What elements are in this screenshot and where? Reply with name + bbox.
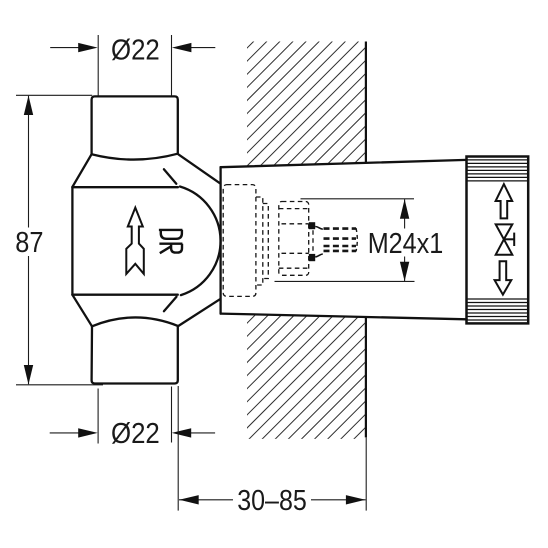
svg-text:M24x1: M24x1 [368, 228, 444, 260]
cartridge body dashed box [223, 185, 256, 297]
thread inner line top [279, 208, 309, 210]
sleeve through wall [221, 160, 467, 319]
protective cap body [467, 157, 529, 324]
spindle neck curves [315, 227, 323, 257]
shoulder slope lower-left [72, 295, 92, 327]
sleeve bottom edge [221, 314, 467, 320]
cap knurling bottom [467, 299, 529, 320]
cap symbol: open arrow up [496, 184, 513, 218]
threaded stud (dashed thread lines) [324, 229, 357, 251]
shoulder slope upper-left [72, 154, 91, 187]
spindle hidden line bottom [282, 252, 309, 254]
chamber edge segment lower [164, 297, 177, 311]
body edge line bottom [72, 294, 177, 296]
flow direction arrow [126, 208, 144, 274]
cap knurling top [467, 160, 529, 181]
spindle axis dashed [312, 230, 314, 253]
valve body outline [72, 96, 220, 383]
spindle hidden line top [282, 223, 309, 225]
hidden cartridge (dashed) [223, 185, 313, 297]
seal ring top (black) [309, 222, 315, 229]
svg-text:30–85: 30–85 [237, 485, 307, 517]
svg-text:Ø22: Ø22 [111, 35, 160, 67]
body left edge [71, 187, 73, 295]
sleeve left edge [219, 167, 221, 313]
svg-text:87: 87 [15, 227, 43, 259]
thread inner line bottom [279, 267, 309, 269]
top inlet stub [92, 96, 178, 154]
wall bottom block right edge [365, 317, 367, 438]
dimension M24x1 [275, 199, 415, 282]
dimension Ø22 bottom [50, 387, 215, 444]
sleeve top edge [221, 160, 467, 167]
cap symbol: valve glyph [496, 224, 515, 254]
bottom outlet stub fillet arc [92, 317, 178, 326]
DR marking (rotated, drawn as paths) [159, 230, 183, 253]
chamber edge segment upper [164, 169, 176, 184]
seal ring bottom (black) [309, 254, 315, 261]
svg-text:Ø22: Ø22 [111, 418, 160, 450]
body edge line top [72, 186, 177, 188]
cartridge step profile [256, 197, 263, 285]
cap symbol: open arrow down [495, 261, 512, 294]
wall top block right edge [365, 42, 367, 164]
shoulder slope upper-right [178, 154, 220, 183]
thread section dashed box [279, 202, 309, 276]
dimension 30-85 bottom [178, 386, 366, 511]
bottom outlet stub [92, 326, 178, 384]
top stub fillet arc [92, 154, 178, 160]
stud end cap dashed [356, 228, 357, 252]
chamber circle arc [180, 187, 221, 296]
dimension Ø22 top [50, 35, 215, 96]
dimension 87 left [16, 95, 103, 385]
shoulder slope lower-right [178, 299, 220, 326]
